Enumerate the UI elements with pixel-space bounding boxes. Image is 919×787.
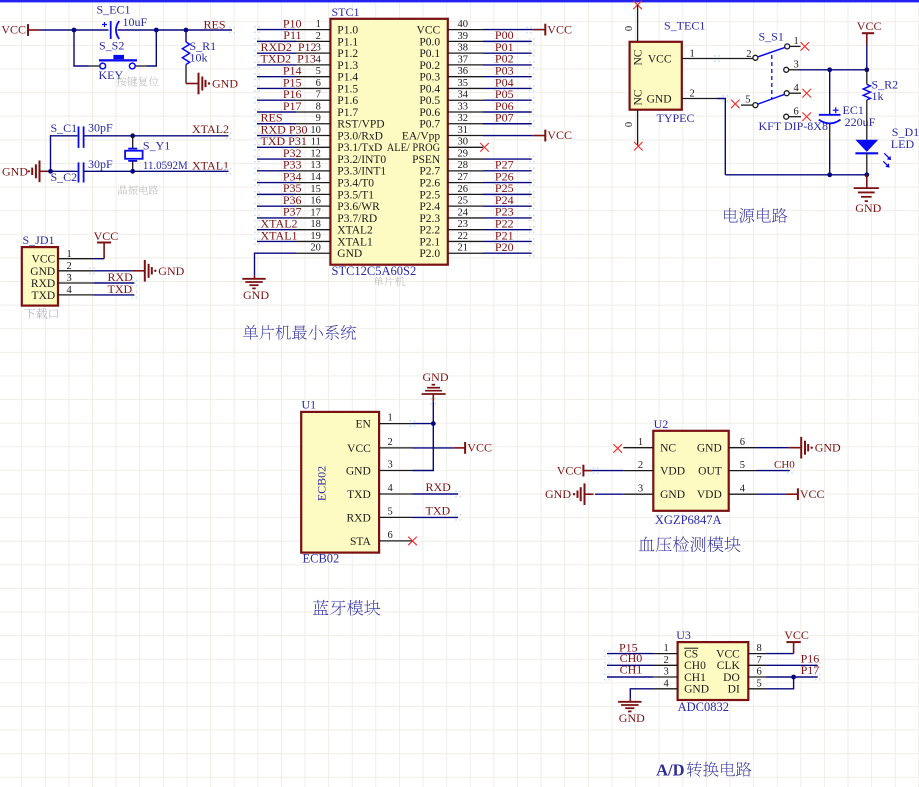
svg-text:P1.4: P1.4 [337,72,358,84]
svg-text:P2.2: P2.2 [419,225,440,237]
capacitor S_C1 [51,120,114,148]
svg-text:2: 2 [388,437,393,448]
svg-text:P3.4/T0: P3.4/T0 [337,178,374,190]
svg-text:P0.5: P0.5 [419,95,440,107]
net label P16 (MCU pin 7) [283,87,302,101]
wire MCU pin 22 [483,240,532,242]
IC U2 XGZP6847A [623,417,756,511]
svg-text:RXD: RXD [347,512,371,524]
wire XTAL1 [84,170,229,172]
pushbutton S_S2 [89,38,148,82]
svg-text:7: 7 [757,655,762,666]
wire S_S2 to node B [147,30,156,66]
svg-text:3: 3 [638,484,643,495]
svg-text:U3: U3 [676,628,691,642]
wire MCU pin 6 [257,87,296,89]
port VCC at S_JD1 [94,229,119,259]
net label RXD at S_JD1 [108,270,134,284]
net label RXD at U1 [426,480,452,494]
wire TEC pin2 to bottom rail [717,99,725,175]
comment KFT DIP-8X8 [759,119,828,133]
wire S_R1 to GND [185,65,187,84]
svg-text:EN: EN [355,419,371,431]
svg-text:6: 6 [388,530,393,541]
svg-text:XGZP6847A: XGZP6847A [655,513,722,527]
svg-text:P1.7: P1.7 [337,107,358,119]
svg-text:GND: GND [815,441,841,455]
wire MCU pin 35 [483,87,532,89]
svg-text:NC: NC [660,443,676,455]
svg-text:GND: GND [697,443,722,455]
svg-text:XTAL1: XTAL1 [192,159,229,173]
net label XTAL1 [192,159,229,173]
wire EC1 to bottom rail [829,124,831,175]
no connect U2 pin1 [613,444,622,453]
port VCC power [857,19,882,45]
port VCC at U3 [784,628,809,654]
svg-text:P0.6: P0.6 [419,107,440,119]
svg-text:STA: STA [350,536,371,548]
label 血压检测模块 [639,536,741,552]
svg-text:P3.7/RD: P3.7/RD [337,213,377,225]
node J [864,172,869,177]
port VCC [1,23,40,37]
net label XTAL2 (MCU pin 18) [261,216,298,230]
net label CH0 [774,459,795,471]
svg-text:GND: GND [545,487,571,501]
svg-text:5: 5 [316,66,321,77]
svg-text:23: 23 [458,219,469,230]
svg-text:STC1: STC1 [332,5,360,19]
svg-text:P3.3/INT1: P3.3/INT1 [337,166,386,178]
svg-text:P07: P07 [495,111,514,125]
net label P26 [495,169,514,183]
node B [154,28,159,33]
svg-text:P2.5: P2.5 [419,189,440,201]
svg-text:GND: GND [619,711,645,725]
net label P33 (MCU pin 13) [283,158,302,172]
svg-text:14: 14 [310,172,321,183]
svg-text:P2.0: P2.0 [419,248,440,260]
svg-text:S_S2: S_S2 [99,38,124,52]
net label XTAL1 (MCU pin 19) [261,228,298,242]
svg-text:GND: GND [647,93,672,105]
port VCC at U2 right [785,487,824,501]
label 晶振电路 [118,185,158,194]
net label P07 [495,111,514,125]
svg-text:GND: GND [423,370,449,384]
svg-text:CH1: CH1 [684,672,706,684]
label 按键复位 [116,76,158,86]
wire U2 pin5 (CH0) [757,470,790,472]
net label TXD at S_JD1 [108,282,133,296]
resistor S_R1 [182,39,216,65]
wire U3 pin4 to GND [630,689,653,699]
wire GND to U1 pins [413,401,434,470]
svg-text:1: 1 [316,19,321,30]
svg-text:STC12C5A60S2: STC12C5A60S2 [332,264,417,278]
svg-text:GND: GND [243,288,269,302]
no connect S_S1 pin6 [802,112,811,121]
svg-text:18: 18 [310,219,321,230]
net label CH1 at U3 [620,663,643,677]
svg-text:10k: 10k [190,51,208,65]
bottom rail [725,174,867,176]
svg-text:XTAL1: XTAL1 [261,228,298,242]
svg-text:2: 2 [67,261,72,272]
svg-text:P3.2/INT0: P3.2/INT0 [337,154,386,166]
net label P23 [495,205,514,219]
net label P34 (MCU pin 14) [283,169,302,183]
net label P14 (MCU pin 5) [283,63,302,77]
svg-text:P1.0: P1.0 [337,25,358,37]
svg-text:P3.6/WR: P3.6/WR [337,201,380,213]
wire MCU pin 4 [257,64,296,66]
svg-text:33: 33 [458,101,469,112]
comment TYPEC [657,111,695,125]
wire U2 pin6 to GND [757,447,789,449]
wire MCU pin 20 to GND [255,253,297,275]
node A [72,28,77,33]
svg-text:5: 5 [740,460,745,471]
svg-text:4: 4 [664,678,670,689]
no connect S_S1 pin1 [801,42,810,51]
svg-text:VCC: VCC [784,628,809,642]
wire U3 pin3 (CH1) [607,676,653,678]
svg-text:2: 2 [746,49,751,60]
svg-text:6: 6 [316,78,321,89]
svg-text:GND: GND [30,266,55,278]
svg-text:4: 4 [740,484,746,495]
svg-text:P1.3: P1.3 [337,60,358,72]
svg-text:CLK: CLK [717,660,741,672]
svg-text:A/D: A/D [656,760,685,779]
svg-text:TXD: TXD [426,504,451,518]
wire U1 pin2 to VCC [413,447,454,449]
svg-text:P0.2: P0.2 [419,60,440,72]
wire node A down to S_S2 [74,30,89,66]
wire MCU pin 26 [483,193,532,195]
capacitor S_C2 [51,157,114,184]
svg-text:ALE/ PROG: ALE/ PROG [387,142,441,154]
net label P36 (MCU pin 16) [283,193,302,207]
wire LED to bottom rail [866,153,868,175]
svg-text:KEY: KEY [99,68,124,82]
svg-text:VDD: VDD [697,489,722,501]
net label P05 [495,87,514,101]
svg-text:GND: GND [158,264,184,278]
svg-text:S_TEC1: S_TEC1 [664,19,705,33]
svg-text:20: 20 [310,243,321,254]
label A/D转换电路 [656,760,751,779]
svg-text:3: 3 [67,273,72,284]
svg-text:P2.6: P2.6 [419,178,440,190]
wire MCU pin 28 [483,170,532,172]
comment XGZP6847A [655,513,722,527]
IC STC1 [296,5,483,265]
svg-text:8: 8 [316,101,321,112]
svg-text:P2.7: P2.7 [419,166,440,178]
svg-text:25: 25 [458,196,469,207]
node K (U1 pin1) [431,421,436,426]
net label P04 [495,75,514,89]
svg-text:2: 2 [690,89,695,100]
wire MCU pin 11 [257,146,296,148]
svg-text:VCC: VCC [800,487,825,501]
svg-text:21: 21 [458,243,469,254]
svg-text:P0.1: P0.1 [419,48,440,60]
wire S_JD1 pin1 to VCC [93,258,104,260]
wire node H to S_R2 [866,70,868,85]
switch S_S1 [741,29,801,119]
svg-text:36: 36 [458,66,469,77]
no connect MCU pin 30 [480,143,489,152]
svg-text:OUT: OUT [698,466,722,478]
svg-text:GND: GND [212,77,238,91]
svg-text:24: 24 [458,207,469,218]
svg-text:11: 11 [311,137,321,148]
label 下载口 [25,308,59,319]
svg-text:S_JD1: S_JD1 [23,233,55,247]
svg-text:S_C1: S_C1 [51,121,78,135]
label 蓝牙模块 [313,600,380,616]
svg-text:S_C2: S_C2 [51,170,78,184]
svg-text:3: 3 [664,667,669,678]
svg-text:31: 31 [458,125,469,136]
svg-text:0: 0 [624,26,635,31]
svg-text:P0.0: P0.0 [419,36,440,48]
power ground (bar style) at S_JD1 [132,260,184,282]
net label P15 [619,640,638,654]
svg-text:DI: DI [728,684,740,696]
svg-text:TXD: TXD [108,282,133,296]
svg-text:GND: GND [660,489,685,501]
svg-text:17: 17 [310,207,321,218]
svg-text:30: 30 [458,137,469,148]
svg-text:P2.4: P2.4 [419,201,440,213]
svg-text:30pF: 30pF [88,157,113,171]
node C [184,28,189,33]
svg-text:4: 4 [67,285,73,296]
wire MCU pin 19 [257,240,296,242]
svg-text:35: 35 [458,78,469,89]
svg-text:1: 1 [388,413,393,424]
net label P11 (MCU pin 2) [283,28,301,42]
svg-text:VCC: VCC [648,53,672,65]
no connect S_TEC1 bottom [634,142,643,151]
svg-text:CS: CS [684,649,698,661]
svg-text:16: 16 [310,196,321,207]
power ground (bar style) at S_R1 [186,73,238,95]
svg-text:RXD: RXD [426,480,452,494]
node D [48,169,53,174]
wire U1 pin1 [413,423,434,425]
net label P17 [801,663,820,677]
wire U3 pin2 (CH0) [607,664,653,666]
svg-text:6: 6 [794,107,799,118]
wire MCU pin 36 [483,76,532,78]
wire node C to S_R1 [185,30,187,42]
node L (DO/DI join) [791,675,796,680]
svg-text:P3.5/T1: P3.5/T1 [337,189,374,201]
net label P27 [495,158,514,172]
wire MCU pin 34 [483,99,532,101]
wire MCU pin 37 [483,64,532,66]
net label CH0 at U3 [620,651,643,665]
port GND crystal [2,161,51,183]
svg-text:3: 3 [388,460,393,471]
wire node A to S_EC1 [74,29,109,31]
svg-text:CH1: CH1 [620,663,643,677]
svg-text:P17: P17 [801,663,820,677]
net label RXD2 P12 (MCU pin 3) [261,40,317,54]
svg-text:VCC: VCC [32,254,56,266]
svg-text:RXD: RXD [31,278,55,290]
power ground (bar style) U2 left [545,483,594,505]
svg-text:VCC: VCC [547,22,572,36]
svg-text:0: 0 [624,122,635,127]
svg-text:15: 15 [310,184,321,195]
svg-text:CH0: CH0 [684,660,706,672]
svg-text:U1: U1 [302,398,317,412]
wire S_R2 to LED [866,100,868,140]
power ground (earth) MCU [242,275,269,302]
net label P03 [495,63,514,77]
wire MCU pin 10 [257,135,296,137]
svg-text:30pF: 30pF [88,120,113,134]
label 电源电路 [724,208,787,223]
svg-text:XTAL1: XTAL1 [337,236,373,248]
comment ECB02 [303,552,340,566]
svg-text:11.0592M: 11.0592M [143,158,188,172]
svg-text:6: 6 [740,437,745,448]
svg-text:3: 3 [794,60,799,71]
svg-text:P1.5: P1.5 [337,83,358,95]
svg-text:13: 13 [310,160,321,171]
capacitor EC1 [819,103,876,129]
svg-text:EA/Vpp: EA/Vpp [402,130,441,142]
svg-text:1: 1 [690,49,695,60]
net label P24 [495,193,514,207]
svg-text:4: 4 [316,54,322,65]
svg-text:VCC: VCC [1,23,26,37]
svg-text:VCC: VCC [716,649,740,661]
wire MCU pin 23 [483,229,532,231]
wire MCU pin 21 [483,252,532,254]
wire node G to EC1 [829,70,831,115]
wire RXD [93,282,134,284]
svg-text:XTAL2: XTAL2 [192,122,229,136]
wire MCU pin 7 [257,99,296,101]
wire MCU pin 31 to VCC [483,135,533,137]
svg-text:10uF: 10uF [123,15,148,29]
svg-text:KFT DIP-8X8: KFT DIP-8X8 [759,119,828,133]
power ground (bar style) U2 right [789,437,841,459]
svg-text:5: 5 [757,678,762,689]
wire U2 pin3 to GND [595,493,623,495]
svg-text:ADC0832: ADC0832 [678,700,729,714]
wire MCU pin 3 [257,52,296,54]
svg-text:GND: GND [855,201,881,215]
IC U3 ADC0832 [653,628,766,700]
svg-text:29: 29 [458,148,469,159]
node H (VCC rail) [864,67,869,72]
svg-text:39: 39 [458,31,469,42]
wire MCU pin 32 [483,123,532,125]
net label RXD P30 (MCU pin 10) [261,122,308,136]
net label P10 (MCU pin 1) [283,16,302,30]
svg-text:PSEN: PSEN [412,154,441,166]
LED S_D1 [855,125,919,168]
svg-text:22: 22 [458,231,469,242]
net label XTAL2 [192,122,229,136]
net label TXD P31 (MCU pin 11) [261,134,307,148]
net label P15 (MCU pin 6) [283,75,302,89]
wire MCU pin 24 [483,217,532,219]
svg-text:220uF: 220uF [845,115,876,129]
wire U2 pin4 to VCC [757,493,786,495]
svg-text:TXD: TXD [32,290,56,302]
wire TXD [93,294,134,296]
net label P01 [495,40,514,54]
wire MCU pin 14 [257,182,296,184]
svg-text:1: 1 [794,36,799,47]
wire U3 pin7 (P16) [766,664,818,666]
net label P21 [495,228,514,242]
svg-text:28: 28 [458,160,469,171]
crystal S_Y1 [125,136,188,172]
svg-text:NC: NC [633,89,645,105]
wire MCU pin 13 [257,170,296,172]
sheet border [0,0,919,2]
svg-text:40: 40 [458,19,469,30]
svg-text:P1.1: P1.1 [337,36,358,48]
svg-text:6: 6 [757,667,762,678]
svg-text:RST/VPD: RST/VPD [337,119,384,131]
wire U1 pin5 [413,516,459,518]
wire MCU pin 2 [257,40,296,42]
no connect U1 pin6 [408,537,417,546]
svg-text:S_Y1: S_Y1 [143,139,170,153]
svg-text:10: 10 [310,125,321,136]
wire MCU pin 9 [257,123,296,125]
capacitor S_EC1 [97,3,148,40]
svg-text:GND: GND [346,466,371,478]
svg-text:VDD: VDD [660,466,685,478]
wire node D to S_C1 [51,136,78,172]
wire S_C1 to node E [84,135,133,137]
label 单片机 [373,276,405,286]
power ground (earth) U3 [618,698,645,725]
wire VCC to node A [41,29,75,31]
port VCC at U1 [454,441,492,455]
node E [130,133,135,138]
wire MCU pin 29 [483,158,532,160]
svg-text:VCC: VCC [467,441,492,455]
svg-text:27: 27 [458,172,469,183]
svg-text:P3.0/RxD: P3.0/RxD [337,130,383,142]
svg-text:32: 32 [458,113,469,124]
node F [130,169,135,174]
net label P22 [495,216,514,230]
svg-text:7: 7 [316,90,321,101]
connector S_TEC1 [624,19,717,146]
node G (EC1 top) [827,67,832,72]
wire U3 pin6 (P17) [766,676,818,678]
wire VCC down to node H [866,45,868,70]
svg-text:VCC: VCC [557,464,582,478]
wire U3 pin5 to node L [766,677,794,689]
